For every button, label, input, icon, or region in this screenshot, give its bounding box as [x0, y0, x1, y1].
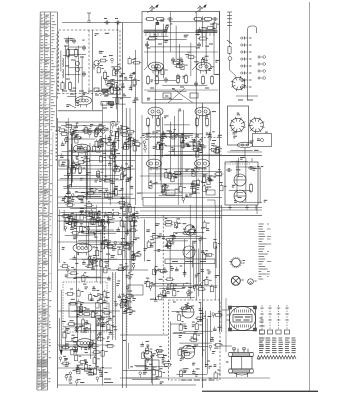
- resistor: [195, 117, 198, 128]
- tube output: [73, 243, 92, 255]
- wire horizontal y208: [58, 207, 262, 209]
- antenna terminal symbol: [87, 13, 91, 22]
- wire vertical bus x222: [221, 205, 223, 332]
- resistor: [201, 75, 204, 86]
- wire y210: [222, 209, 262, 211]
- resistor: [155, 75, 158, 86]
- ladder spine wire: [247, 36, 249, 100]
- wire vertical bus x126: [125, 108, 127, 388]
- wire IF box divider: [170, 12, 172, 53]
- resistor: [176, 74, 179, 85]
- capacitor: [82, 71, 86, 77]
- IF transformer winding bar 1: [144, 30, 167, 33]
- resistor: [94, 128, 97, 139]
- component cluster below: [67, 153, 133, 199]
- coil L1: [63, 58, 64, 67]
- capacitor: [212, 17, 218, 21]
- tube circle detail 1: [234, 174, 246, 186]
- cluster left of output box: [139, 341, 172, 377]
- capacitor C top2: [115, 21, 121, 25]
- resistor in tuner: [74, 48, 77, 59]
- wire vertical x226 transformers: [225, 298, 227, 352]
- wire below socket: [236, 95, 258, 97]
- bus end tick: [142, 198, 144, 207]
- second ladder column: [258, 55, 266, 79]
- cluster bottom-left lower: [59, 347, 108, 386]
- wire vertical x77: [76, 252, 78, 332]
- resistor: [145, 18, 156, 21]
- wire vertical x155: [154, 103, 156, 300]
- IF box small parts: [154, 52, 214, 75]
- wire horizontal y242: [58, 241, 135, 243]
- lamp circle X: [231, 276, 244, 285]
- box with circle: [145, 360, 159, 370]
- wire horizontal y270: [58, 269, 148, 271]
- dashed line y137: [140, 137, 222, 139]
- tube in output box 1: [182, 306, 194, 318]
- wire vertical x252: [251, 158, 253, 162]
- resistor: [249, 183, 252, 194]
- wires center lower block: [144, 219, 217, 297]
- wire down: [244, 148, 246, 158]
- component row mid: [143, 130, 222, 157]
- wire horizontal y378: [120, 377, 270, 379]
- wire inside IF box: [144, 51, 218, 53]
- resistor: [156, 117, 159, 128]
- vertical text x104: [103, 216, 105, 248]
- resistor in tuner: [68, 81, 71, 92]
- wire vertical bus x130: [129, 108, 131, 312]
- wire: [229, 61, 231, 71]
- tube circle with arrow: [185, 225, 195, 235]
- wire stub y156: [222, 155, 245, 157]
- corner wire: [207, 200, 215, 205]
- resistor: [103, 70, 106, 81]
- pin dot: [241, 144, 243, 146]
- cluster center lower: [147, 219, 220, 260]
- wire horizontal y197: [58, 196, 130, 198]
- resistor: [147, 37, 158, 40]
- sheet bottom rule thin left: [202, 390, 240, 392]
- wire horizontal y335: [120, 334, 168, 336]
- tube socket view: [231, 76, 246, 91]
- tube IF amp 2: [196, 62, 211, 73]
- small tube circle: [144, 351, 152, 359]
- test point arrow 1: [147, 5, 159, 14]
- dotted vertical wire: [126, 300, 128, 335]
- IF can top view: [227, 306, 257, 331]
- labels right of tuner: [105, 70, 138, 103]
- block bottom pins: [228, 205, 256, 210]
- capacitor: [226, 168, 232, 172]
- arrowhead: [60, 350, 62, 355]
- variable arrow: [100, 88, 110, 96]
- dashed box audio output: [169, 300, 221, 380]
- tube socket view A: [229, 117, 245, 134]
- wires bottom left: [59, 304, 113, 371]
- wire vertical x96: [95, 205, 97, 282]
- cluster x115 y298: [119, 296, 136, 315]
- box bottom-left: [69, 303, 109, 317]
- coil circle: [96, 129, 100, 133]
- zigzag waveform row: [257, 356, 296, 360]
- tube in output box 2: [181, 345, 195, 359]
- resistor in tuner: [66, 48, 69, 59]
- cluster below bar: [146, 266, 217, 301]
- wire vertical x178: [177, 110, 179, 205]
- wires bottom center: [123, 343, 168, 385]
- cluster right of dotted box: [107, 273, 134, 309]
- wire vertical x155 upper: [154, 25, 156, 103]
- vertical text label: [56, 34, 58, 98]
- resistor: [146, 75, 149, 86]
- switch contact: [228, 57, 232, 61]
- wire vertical bus x123: [122, 23, 124, 389]
- wire vertical x93 tuner: [92, 30, 94, 110]
- labels output box: [173, 302, 216, 380]
- dashed divider in tuner box: [88, 30, 90, 94]
- resistor: [193, 18, 204, 21]
- component cluster tuner right: [93, 57, 119, 94]
- labels bottom center: [123, 340, 166, 383]
- wire vertical from antenna cap: [117, 23, 119, 123]
- wire vertical x103: [102, 103, 104, 385]
- wire diagonal: [230, 70, 237, 76]
- wire: [70, 105, 76, 108]
- wire vertical x196: [195, 12, 197, 300]
- dense cluster upper: [61, 204, 139, 237]
- wires left lower block: [59, 205, 135, 284]
- box component: [190, 93, 198, 98]
- long resistor bar: [165, 259, 215, 264]
- shield box right: [228, 106, 249, 145]
- detector block box: [225, 162, 258, 205]
- tube output stage: [77, 339, 94, 350]
- wire horizontal y345: [58, 344, 112, 346]
- tube triode VHF: [76, 96, 92, 107]
- labels IF box: [146, 30, 219, 100]
- component cluster left column: [57, 123, 85, 173]
- diode: [227, 40, 232, 44]
- bottom left text: [104, 379, 113, 383]
- wire horizontal y211: [140, 210, 222, 212]
- resistor: [203, 18, 214, 21]
- wire left main vertical bus: [57, 118, 59, 388]
- box component right of pair: [128, 285, 143, 295]
- varicap diode: [76, 68, 80, 72]
- sheet right border: [309, 2, 311, 392]
- IF transformer winding bar 2: [196, 30, 217, 33]
- wires right of tuner: [101, 76, 136, 109]
- tube circle 2: [183, 246, 195, 258]
- tiny labels right of IF can: [260, 318, 265, 346]
- winding taps: [146, 33, 214, 36]
- diagonal wires in IF box: [168, 88, 193, 103]
- wire horizontal y169: [58, 168, 135, 170]
- shielded pair wire right: [114, 272, 116, 340]
- pin dot: [246, 144, 248, 146]
- module boundary chain line: [162, 215, 164, 334]
- vertical text x58 mid: [55, 130, 57, 161]
- resistor: [205, 117, 208, 128]
- cluster bottom-left extra: [76, 365, 100, 374]
- contact dot: [261, 139, 264, 142]
- wire horizontal y218: [140, 217, 222, 219]
- wire horizontal y176: [140, 175, 222, 177]
- capacitor mid: [171, 57, 175, 63]
- output transformer side view: [226, 348, 260, 378]
- labels left lower: [62, 207, 140, 278]
- wire with arrow: [60, 290, 62, 352]
- shielded pair wire left: [112, 272, 114, 340]
- sheet bottom rule: [202, 390, 318, 392]
- flat ellipse tube: [238, 142, 253, 148]
- capacitor C top: [104, 21, 110, 25]
- labels bottom left: [62, 309, 117, 383]
- cluster below tube: [60, 255, 135, 281]
- tiny text above box bottom: [62, 90, 110, 92]
- band labels: [71, 197, 114, 222]
- wire vertical bus x203: [202, 103, 204, 388]
- cluster bottom-left upper: [61, 316, 118, 350]
- wire y193: [140, 192, 200, 194]
- capacitor: [164, 77, 168, 83]
- cluster right of tube: [95, 239, 142, 261]
- small parts right of VHF tube: [94, 88, 114, 108]
- arrowhead: [109, 86, 112, 90]
- capacitor in tuner: [65, 38, 69, 44]
- wire vertical x110: [109, 122, 111, 205]
- box component: [163, 93, 171, 98]
- box component: [206, 190, 215, 195]
- cluster inside output box: [177, 303, 224, 378]
- component cluster below tubes: [149, 168, 227, 203]
- wire vertical bus x136: [135, 50, 137, 205]
- dashed shield box VHF tuner: [59, 30, 120, 94]
- resistor: [155, 18, 166, 21]
- wire to transformer: [222, 345, 232, 347]
- parts list table strip: [37, 12, 58, 390]
- coil L2: [63, 69, 64, 78]
- tube det1: [147, 159, 162, 170]
- capacitor: [194, 81, 198, 87]
- wires lower right mid: [229, 151, 262, 204]
- wire vertical x257: [256, 205, 258, 214]
- labels tuner: [66, 33, 114, 107]
- tube IF3: [148, 107, 163, 118]
- cluster inside dotted box: [65, 284, 111, 330]
- component cluster right: [111, 127, 142, 155]
- terminal circle: [94, 60, 99, 65]
- labels center mid: [142, 109, 222, 197]
- box component left: [59, 160, 69, 166]
- resistor: [146, 117, 149, 128]
- capacitor: [82, 45, 86, 51]
- wire to IF can: [222, 309, 229, 311]
- capacitor chain top right: [227, 12, 232, 44]
- capacitor: [145, 42, 149, 48]
- capacitor: [248, 166, 254, 170]
- tube circle detail 2: [234, 190, 246, 202]
- coil circle: [101, 129, 105, 133]
- wire across: [228, 151, 263, 153]
- resistor: [198, 37, 209, 40]
- resistor: [210, 75, 213, 86]
- IF amplifier section box: [142, 12, 220, 104]
- IF box top parts row: [156, 20, 220, 32]
- wires output box: [170, 302, 212, 374]
- labels right box: [233, 113, 268, 159]
- wire horizontal y203: [58, 202, 130, 204]
- wire horizontal y111: [58, 110, 102, 112]
- hook wire top: [248, 26, 257, 36]
- wire horizontal y311: [58, 310, 120, 312]
- dial lamp circle hatched: [230, 257, 246, 268]
- wire horizontal bottom y385: [58, 384, 196, 386]
- test point arrow 2: [195, 5, 207, 14]
- bar label: [172, 261, 206, 263]
- legend text columns: [259, 338, 296, 353]
- tiny text above bottom rule: [181, 379, 214, 381]
- wire vertical x190 lower: [189, 205, 191, 300]
- labels lower right mid: [232, 167, 267, 203]
- wires tuner area: [61, 37, 86, 106]
- tube IF amp 1: [149, 62, 164, 73]
- labels center lower: [144, 224, 220, 300]
- wire horizontal y221: [58, 220, 135, 222]
- dotted line y164: [225, 163, 250, 165]
- small circle: [248, 279, 257, 285]
- wire horizontal y368: [58, 367, 112, 369]
- varicap diode: [76, 62, 80, 66]
- wire vertical x215 lower: [214, 205, 216, 300]
- wire inside IF box low: [144, 89, 218, 91]
- wire top horizontal y22: [62, 22, 142, 24]
- wire vertical x142 mid: [141, 115, 143, 200]
- wires IF box: [146, 16, 214, 99]
- wire horizontal y206 center: [143, 205, 222, 207]
- resistor R chain: [228, 45, 231, 56]
- tube converter: [74, 144, 91, 155]
- wire vertical bus x220: [219, 12, 221, 333]
- resistor in tuner: [61, 81, 64, 92]
- shield dotted line: [113, 274, 115, 338]
- capacitor in tuner: [72, 38, 76, 44]
- four capacitors with dashed leads: [259, 305, 289, 334]
- wire horizontal y180: [58, 179, 122, 181]
- ladder branches with terminals: [241, 36, 252, 88]
- dotted module box bottom-left: [63, 282, 107, 332]
- wire horizontal bus y216: [58, 215, 262, 217]
- wire vertical x68: [67, 118, 69, 205]
- component cluster mid: [79, 122, 123, 152]
- dense band left: [64, 194, 127, 227]
- main horizontal bus y156: [58, 155, 262, 157]
- small box switch: [253, 134, 272, 147]
- wire horizontal y122: [58, 121, 120, 123]
- wires center mid block: [145, 110, 222, 198]
- tube IF4: [195, 107, 210, 118]
- capacitor: [167, 17, 173, 21]
- tube socket view B: [248, 117, 264, 134]
- capacitor: [197, 42, 201, 48]
- resistor: [184, 74, 187, 85]
- tube det2: [195, 159, 210, 170]
- box component: [166, 190, 175, 195]
- wire vertical x86: [85, 155, 87, 248]
- notes text column: [259, 224, 272, 279]
- arrow to tube2: [192, 64, 198, 70]
- wire horizontal y197 center: [143, 197, 222, 199]
- component cluster right of tuner: [112, 56, 142, 103]
- arrow to tube1: [144, 64, 150, 70]
- labels left mid: [62, 124, 142, 200]
- wires left mid block: [60, 126, 135, 200]
- capacitor mid: [179, 57, 183, 63]
